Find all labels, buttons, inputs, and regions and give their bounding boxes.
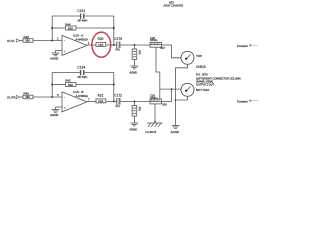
svg-text:NP M/H: NP M/H <box>78 75 88 79</box>
svg-text:CN5-B: CN5-B <box>196 65 206 69</box>
wire op-amp B output <box>87 101 96 103</box>
op-amp U15-A <box>57 33 90 55</box>
capacitor C131 <box>52 9 114 22</box>
resistor R168 vertical <box>132 45 142 66</box>
wire R39 to op-amp <box>33 40 62 42</box>
svg-text:AGND: AGND <box>50 57 58 61</box>
capacitor C26 <box>150 94 172 107</box>
resistor R39 <box>23 35 33 43</box>
wire top line to TOP jack <box>172 45 182 58</box>
svg-text:560: 560 <box>25 95 30 99</box>
connector CN5-B TOP jack <box>181 51 202 64</box>
svg-text:TOP: TOP <box>196 54 202 58</box>
svg-text:-: - <box>64 96 65 99</box>
svg-text:R21: R21 <box>98 94 104 98</box>
ground AGND op-amp B <box>50 110 60 118</box>
svg-text:62K: 62K <box>68 26 73 30</box>
svg-text:NP M/H: NP M/H <box>78 18 88 22</box>
node junction R44 left <box>51 27 53 29</box>
capacitor C179 <box>115 37 123 51</box>
svg-text:C131: C131 <box>77 9 85 13</box>
capacitor C134 <box>52 66 114 79</box>
node junction feedback/output <box>113 44 115 46</box>
svg-text:A-N4562A: A-N4562A <box>76 94 89 98</box>
svg-text:47R: 47R <box>98 43 103 47</box>
svg-text:U15 - B: U15 - B <box>73 90 84 94</box>
svg-text:R40: R40 <box>24 91 30 95</box>
wire shield BOTTOM jack <box>176 96 188 100</box>
wire lower input to ground <box>56 51 63 54</box>
svg-text:Forward: Forward <box>237 99 248 103</box>
node junction chassis <box>154 121 156 123</box>
svg-text:U15 - A: U15 - A <box>73 33 84 37</box>
node junction top output <box>133 44 135 46</box>
resistor R21 <box>96 94 106 104</box>
svg-text:AGND: AGND <box>130 70 138 74</box>
svg-text:62K: 62K <box>68 83 73 87</box>
resistor R169 vertical <box>132 102 142 124</box>
svg-text:1: 1 <box>88 41 90 45</box>
svg-text:AGND: AGND <box>130 127 138 131</box>
svg-text:ASSY CHASSIS: ASSY CHASSIS <box>164 3 184 7</box>
node junction feedback/output B <box>113 101 115 103</box>
svg-text:OUTL: OUTL <box>7 39 15 43</box>
svg-text:2: 2 <box>57 37 59 41</box>
svg-text:Forward: Forward <box>237 44 248 48</box>
wire bottom line up-turn <box>171 89 173 101</box>
svg-text:BOTTOM: BOTTOM <box>196 88 209 92</box>
svg-text:47u: 47u <box>115 47 120 51</box>
resistor R40 <box>23 91 33 99</box>
node junction R45 right <box>113 84 115 86</box>
svg-text:AGND: AGND <box>171 130 179 134</box>
ground AGND shield <box>171 126 180 135</box>
wire C179 to C28 <box>121 44 151 46</box>
wire C172 to C26 <box>121 101 151 103</box>
node OUTL input label <box>7 39 23 43</box>
svg-text:47K: 47K <box>138 50 142 55</box>
capacitor C172 <box>115 94 123 108</box>
node junction R44 right <box>113 27 115 29</box>
svg-text:6: 6 <box>57 93 59 97</box>
wire op-amp A output <box>87 44 96 46</box>
svg-text:OUTPUT2 OUT: OUTPUT2 OUT <box>196 82 214 86</box>
annotation red ellipse <box>92 32 111 57</box>
node junction bottom feed <box>171 88 173 90</box>
node OUTR input label <box>7 95 23 99</box>
wire feedback right vertical to output <box>113 16 115 45</box>
wire feedback right vertical to output B <box>113 73 115 102</box>
wire R21 to C172 <box>106 101 117 103</box>
node junction feedback/input A <box>51 40 53 42</box>
node junction shield <box>175 99 177 101</box>
svg-text:50V: 50V <box>160 46 165 50</box>
svg-text:50V: 50V <box>162 103 167 107</box>
resistor R20 <box>96 37 106 47</box>
svg-text:D-H03 B: D-H03 B <box>146 130 157 134</box>
svg-text:3300u: 3300u <box>150 38 158 42</box>
wire shield TOP jack to ground <box>176 64 188 125</box>
label forward top <box>237 44 258 48</box>
svg-text:C134: C134 <box>77 66 85 70</box>
svg-text:R39: R39 <box>24 35 30 39</box>
svg-text:R20: R20 <box>98 37 104 41</box>
svg-text:47u: 47u <box>115 104 120 108</box>
wire R20 to C179 <box>106 44 117 46</box>
svg-text:A-N4562A: A-N4562A <box>76 37 89 41</box>
svg-text:47R: 47R <box>98 100 103 104</box>
wire feedback left vertical A <box>51 16 53 41</box>
wire bottom jack feed <box>160 88 181 90</box>
svg-text:47K: 47K <box>138 107 142 112</box>
connector CN5-B BOTTOM jack <box>181 83 209 96</box>
wire R40 to op-amp B <box>33 96 62 98</box>
svg-text:AGND: AGND <box>50 113 58 117</box>
svg-text:C172: C172 <box>115 94 123 98</box>
svg-text:+: + <box>64 50 66 53</box>
svg-text:R45: R45 <box>65 78 71 82</box>
svg-text:560: 560 <box>25 39 30 43</box>
node junction bottom output <box>133 101 135 103</box>
op-amp U15-B <box>57 90 90 112</box>
ground chassis D-H03 <box>146 123 163 134</box>
wire feedback left vertical B <box>51 73 53 98</box>
svg-text:C179: C179 <box>115 37 123 41</box>
ground AGND op-amp A <box>50 53 60 61</box>
wire lower input B to ground <box>56 107 63 110</box>
svg-text:OUTR: OUTR <box>7 95 16 99</box>
wire C28 ground stub stepped <box>156 47 160 99</box>
capacitor C28 <box>150 36 172 50</box>
label forward bottom <box>237 99 258 103</box>
node junction feedback/input B <box>51 96 53 98</box>
svg-text:-: - <box>64 40 65 43</box>
wire chassis drop <box>154 104 156 123</box>
node junction R45 left <box>51 84 53 86</box>
resistor R45 <box>52 78 114 87</box>
resistor R44 <box>52 22 114 30</box>
ground AGND R168 <box>130 66 139 74</box>
ground AGND R169 <box>130 123 139 131</box>
svg-text:P/J : W73: P/J : W73 <box>196 73 208 77</box>
svg-text:+: + <box>64 107 66 110</box>
svg-text:7: 7 <box>88 97 90 101</box>
